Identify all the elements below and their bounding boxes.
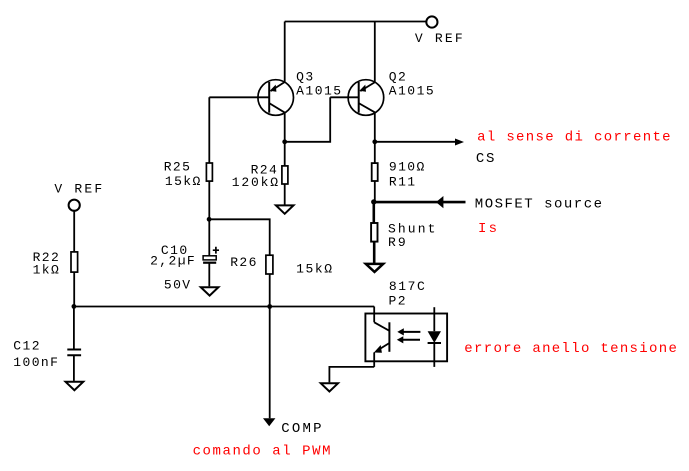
resistor R22 xyxy=(71,252,78,272)
svg-text:MOSFET source: MOSFET source xyxy=(475,197,604,213)
ground below C12 xyxy=(66,382,84,390)
optocoupler P2 box xyxy=(365,314,447,362)
svg-text:P2: P2 xyxy=(389,294,407,309)
ground below R24 xyxy=(276,205,294,213)
transistor Q3 xyxy=(258,80,294,116)
capacitor C10 bottom plate xyxy=(203,262,216,264)
capacitor C10 plus plate xyxy=(203,256,216,260)
svg-text:A1015: A1015 xyxy=(296,84,343,99)
svg-text:Q2: Q2 xyxy=(389,69,408,84)
svg-text:CS: CS xyxy=(476,151,496,167)
wire R11 bottom lead xyxy=(374,181,376,200)
svg-text:15kΩ: 15kΩ xyxy=(165,174,202,189)
wire link Q3 collector to Q2 base xyxy=(285,97,331,142)
wire Q2 base xyxy=(330,96,359,98)
opto LED cathode pin xyxy=(433,343,435,367)
svg-text:100nF: 100nF xyxy=(13,355,59,370)
wire Q3 emitter pin xyxy=(284,22,286,82)
wire R25 bottom lead xyxy=(208,181,210,219)
resistor R24 xyxy=(282,166,288,184)
arrow COMP xyxy=(263,418,275,426)
terminal V REF top right xyxy=(426,16,437,27)
capacitor C10 plus sign xyxy=(213,247,219,254)
opto light arrow upper xyxy=(404,331,421,333)
svg-text:2,2µF: 2,2µF xyxy=(150,253,196,268)
wire R26 bottom lead xyxy=(269,274,271,307)
svg-text:R26: R26 xyxy=(230,255,258,270)
wire shunt top lead thick xyxy=(372,202,375,223)
svg-text:1kΩ: 1kΩ xyxy=(33,262,61,277)
svg-text:R25: R25 xyxy=(164,160,192,175)
resistor R26 xyxy=(266,255,273,274)
wire top rail V REF xyxy=(285,21,426,23)
wire R24 bottom lead xyxy=(284,184,286,205)
wire R25 top lead xyxy=(208,97,210,163)
svg-text:comando al PWM: comando al PWM xyxy=(193,443,332,459)
opto LED diode xyxy=(428,331,441,343)
wire CS arrow to current sense xyxy=(375,141,456,143)
svg-text:V REF: V REF xyxy=(415,31,465,46)
opto phototransistor xyxy=(374,322,390,353)
node Q2 collector junction xyxy=(372,139,377,144)
wire C10 junction to R26 xyxy=(209,219,269,255)
svg-text:R9: R9 xyxy=(388,235,408,250)
wire long horizontal rail xyxy=(74,306,374,308)
wire C10 top lead xyxy=(208,219,210,255)
wire shunt bottom lead thick xyxy=(373,242,376,263)
wire Q3 base xyxy=(209,96,269,98)
svg-text:50V: 50V xyxy=(164,277,192,292)
svg-text:Q3: Q3 xyxy=(296,69,315,84)
ground below shunt R9 xyxy=(366,264,383,272)
wire opto emitter to ground xyxy=(329,367,374,383)
capacitor C12 plates xyxy=(67,350,81,356)
wire COMP lead xyxy=(269,307,271,419)
svg-text:120kΩ: 120kΩ xyxy=(232,175,280,190)
terminal V REF left xyxy=(69,200,80,211)
wire Q2 emitter pin xyxy=(374,22,376,82)
node R26 long rail junction xyxy=(267,304,272,309)
node MOSFET source junction xyxy=(371,199,376,204)
wire MOSFET source thick xyxy=(374,201,466,204)
svg-text:V REF: V REF xyxy=(54,181,104,196)
svg-text:Is: Is xyxy=(478,221,499,237)
svg-text:R11: R11 xyxy=(389,175,417,190)
node Q3 collector junction xyxy=(282,139,287,144)
svg-text:errore anello tensione: errore anello tensione xyxy=(464,341,678,357)
wire opto emitter pin xyxy=(373,352,375,367)
wire R22 bottom lead xyxy=(73,272,75,306)
opto LED anode pin xyxy=(433,307,435,331)
resistor R25 xyxy=(206,163,212,181)
svg-text:COMP: COMP xyxy=(281,421,323,437)
wire opto collector pin xyxy=(373,307,375,323)
transistor Q2 xyxy=(348,80,384,116)
node R25-C10 junction xyxy=(207,217,212,222)
resistor R9 shunt xyxy=(371,223,377,242)
wire Q3 collector xyxy=(284,113,286,142)
svg-text:15kΩ: 15kΩ xyxy=(296,261,334,276)
svg-text:910Ω: 910Ω xyxy=(389,159,426,174)
svg-text:817C: 817C xyxy=(389,279,427,294)
svg-text:A1015: A1015 xyxy=(389,84,436,99)
ground below C10 xyxy=(201,287,219,295)
wire R22 top lead xyxy=(73,211,75,252)
wire Q2 collector xyxy=(374,113,376,142)
wire R24 top lead xyxy=(284,142,286,166)
wire R11 top lead xyxy=(374,142,376,163)
ground below opto xyxy=(321,383,338,391)
svg-text:al sense di corrente: al sense di corrente xyxy=(477,129,672,145)
opto light arrow lower xyxy=(403,339,420,341)
node R22-C12 junction xyxy=(72,304,77,309)
svg-text:C12: C12 xyxy=(13,338,41,353)
wire C12 top lead xyxy=(73,307,75,350)
wire C10 bottom lead xyxy=(208,264,210,287)
resistor R11 xyxy=(372,163,378,181)
wire C12 bottom lead xyxy=(73,355,75,381)
